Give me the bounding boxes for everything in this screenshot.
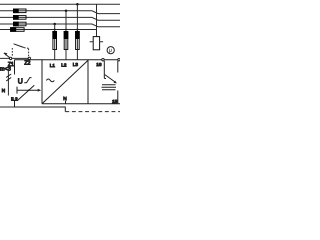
wire Z1-Z2 link (0, 57, 30, 59)
terminal circle 16 (102, 59, 104, 61)
node dot on axis crossing (28, 89, 30, 91)
wire vertical V2 from L2 down to device (65, 11, 67, 60)
wire from bars to 15 rail (117, 91, 119, 104)
device box right edge (87, 60, 89, 104)
rectifier diagonal (42, 61, 88, 104)
fuse F8 rectangle on V4 with strikers (90, 37, 103, 50)
terminal tick N (65, 101, 67, 104)
microprocessor circle (107, 47, 114, 54)
ac tilde symbol (46, 79, 54, 82)
node dot on L1 at x=77.4 (76, 3, 79, 6)
reset button blade (14, 44, 24, 48)
contact vertical from 18 (117, 61, 119, 73)
svg-text:N: N (2, 88, 5, 93)
device box left edge upper segment (14, 60, 16, 75)
wire L3 line with jog (0, 17, 120, 20)
node dot line5 x=77.4 (76, 29, 78, 31)
wire left of box bottom (0, 106, 15, 108)
terminal circle 18 edge (118, 59, 120, 61)
wire L2 line with jog (0, 11, 120, 14)
graph axis with right arrow (17, 87, 41, 94)
wire branch line 5 (0, 29, 97, 31)
svg-text:m<3: m<3 (0, 67, 11, 73)
wire vertical V1 from N down to device (54, 24, 56, 60)
external reset switch blade left (4, 53, 10, 59)
device box left edge lower segment (14, 101, 16, 107)
terminal Z1 circle (9, 57, 11, 59)
dashed boundary bottom right (65, 111, 120, 113)
node dot line5 x=66 (65, 29, 67, 31)
device box top edge and right contact rail (15, 59, 121, 61)
svg-text:15: 15 (112, 99, 118, 105)
node dot on L2 at x=66 (65, 10, 68, 13)
svg-text:L2: L2 (61, 63, 67, 68)
N rail wire (42, 103, 120, 105)
reset button dashed enclosure (12, 48, 28, 57)
svg-text:IL2: IL2 (11, 97, 18, 103)
svg-text:16: 16 (96, 62, 102, 68)
contact vertical from 16 (104, 61, 106, 78)
wire vertical V3 from L1 down to device (76, 4, 78, 59)
svg-text:Z2: Z2 (24, 61, 30, 67)
svg-text:L1: L1 (50, 63, 56, 68)
fuse F6 vertical on V2 (64, 32, 68, 50)
node dot on N at x=54.7 (53, 23, 56, 26)
fuse F1 on L2 (14, 9, 27, 13)
terminal Z2 circle (28, 57, 30, 59)
fuse F4 on branch line 5 (11, 28, 25, 32)
fuse F3 on N (14, 22, 27, 26)
wire L1 top line (0, 3, 120, 5)
node dot line5 x=54.7 (54, 29, 56, 31)
device box bottom edge with step down (15, 107, 66, 112)
divider inside box (41, 60, 43, 104)
fuse F5 vertical on V1 (53, 32, 57, 50)
threshold step curve (24, 78, 31, 83)
svg-text:U: U (18, 78, 23, 85)
wire vertical V4 from L1 down right side (96, 4, 98, 36)
sensor line left with double slash (6, 69, 11, 96)
armature bars (102, 85, 117, 90)
svg-text:L3: L3 (73, 62, 79, 67)
wire N line with jog (0, 24, 120, 27)
adjustment slash (17, 85, 34, 101)
contact blade arrow (105, 75, 117, 84)
fuse F7 vertical on V3 (76, 32, 80, 50)
fuse F2 on L3 (14, 16, 27, 20)
